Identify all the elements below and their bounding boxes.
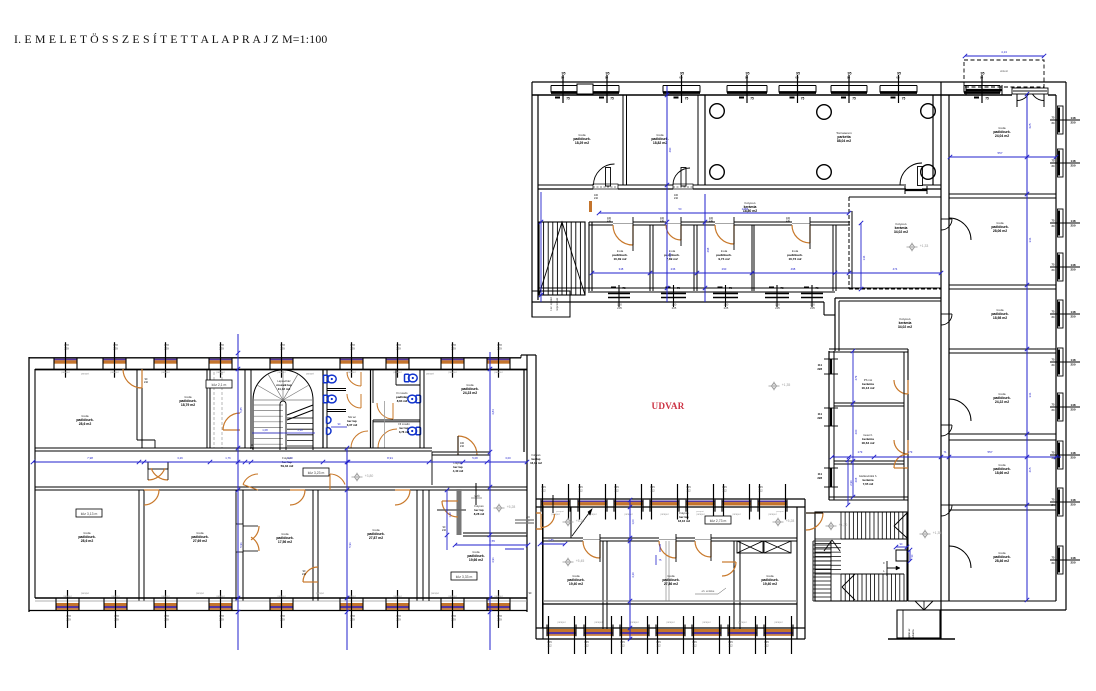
blue marks south M2 [655, 555, 657, 565]
main stair lower flight treads [840, 574, 842, 601]
south wing west wall upper [535, 355, 537, 513]
corridor west wall [588, 222, 590, 291]
east wing bottom wall [908, 600, 1056, 602]
svg-text:parapet: parapet [216, 371, 224, 374]
svg-text:148: 148 [1070, 358, 1075, 362]
svg-text:250: 250 [1070, 456, 1075, 460]
stair top-left border [539, 222, 585, 295]
north wing inner top wall [532, 94, 1012, 96]
sw bottom windows [56, 603, 79, 606]
svg-text:7,98: 7,98 [87, 456, 93, 460]
svg-text:27,86 m2: 27,86 m2 [664, 582, 678, 586]
blue main corridor dim sw [33, 461, 527, 463]
south east stair treads [813, 540, 831, 542]
svg-text:parapet: parapet [494, 595, 502, 598]
curved stair newel [280, 401, 286, 450]
svg-text:köz 2,73 m: köz 2,73 m [710, 519, 727, 523]
svg-text:5,91: 5,91 [348, 542, 352, 548]
door into B2 top [144, 490, 159, 505]
spine wall east line [948, 95, 950, 601]
north wing left exterior wall [531, 82, 533, 317]
east room 4 door [949, 399, 971, 421]
svg-text:210: 210 [709, 220, 714, 223]
stair lift blue dims [896, 546, 907, 548]
blue vert dim top wing x667 [666, 86, 668, 302]
svg-text:250: 250 [1070, 363, 1075, 367]
service rooms east wall [903, 352, 905, 500]
main stair upper flight treads [840, 512, 842, 539]
svg-text:parapet: parapet [776, 510, 784, 513]
svg-text:205: 205 [617, 306, 622, 310]
wc door arc lobby [351, 431, 368, 448]
svg-text:341: 341 [1028, 237, 1032, 242]
svg-text:7,65 m2: 7,65 m2 [863, 482, 874, 486]
svg-text:239: 239 [64, 347, 69, 351]
svg-text:290: 290 [722, 267, 727, 271]
hall right wall [932, 95, 934, 185]
south wing top outer wall [536, 498, 805, 500]
north corridor door sills [613, 223, 633, 225]
window left of entrance [966, 89, 1002, 91]
svg-text:279: 279 [854, 375, 858, 380]
wc vent pipe [384, 401, 386, 448]
south wing bottom outer wall [536, 638, 805, 640]
svg-text:5,91: 5,91 [239, 542, 243, 548]
svg-text:18,16 m2: 18,16 m2 [678, 519, 691, 523]
room T2 right wall [206, 369, 208, 448]
wc door arc ffi [378, 429, 397, 448]
window N3 [727, 85, 767, 87]
svg-text:3,76 m2: 3,76 m2 [399, 430, 410, 434]
svg-text:228: 228 [817, 367, 822, 371]
svg-text:28,46 m2: 28,46 m2 [995, 559, 1009, 563]
door leaf hall [918, 167, 923, 186]
level marks south wing [565, 519, 570, 526]
bottom row wall B2/B3 [235, 490, 237, 601]
entrance threshold [1012, 88, 1048, 94]
partition room B / hall [697, 95, 699, 185]
svg-text:210: 210 [302, 573, 307, 576]
sw wing bottom gray line [35, 600, 527, 602]
upper folyoso bottom dashed [849, 288, 941, 290]
svg-text:250: 250 [1070, 561, 1075, 565]
spine door half arc 4 [941, 505, 952, 516]
svg-text:05: 05 [745, 76, 749, 80]
svg-text:parapet: parapet [277, 595, 285, 598]
svg-text:05: 05 [847, 76, 851, 80]
svg-text:239: 239 [396, 347, 401, 351]
svg-text:parapet: parapet [696, 510, 704, 513]
svg-text:VÍZÓ: VÍZÓ [474, 495, 480, 498]
svg-text:4,40 m2: 4,40 m2 [453, 469, 464, 473]
svg-text:I.sz. épület: I.sz. épület [549, 297, 553, 311]
svg-text:05: 05 [795, 76, 799, 80]
svg-text:228: 228 [817, 476, 822, 480]
room T4 door arc [458, 436, 477, 455]
svg-text:UDVAR: UDVAR [652, 401, 685, 411]
svg-text:239: 239 [114, 618, 119, 622]
svg-text:210: 210 [442, 529, 447, 532]
svg-text:112: 112 [541, 489, 546, 493]
svg-text:Kijárat az: Kijárat az [907, 628, 911, 640]
svg-text:1,00: 1,00 [631, 519, 635, 525]
small room partition 2 [693, 225, 695, 291]
south rooms bottom wall [543, 600, 797, 602]
svg-text:112: 112 [722, 489, 727, 493]
service wing top wall [829, 348, 908, 350]
svg-text:24,23 m2: 24,23 m2 [463, 391, 477, 395]
svg-text:4,30: 4,30 [631, 572, 635, 578]
east wing room wall 5 [949, 504, 1056, 506]
vestibule east wall [244, 369, 246, 448]
svg-text:05: 05 [561, 76, 565, 80]
south corridor west door jambs [536, 512, 541, 514]
svg-text:210: 210 [786, 220, 791, 223]
svg-text:260: 260 [854, 429, 858, 434]
hall column circle 3 [921, 104, 936, 119]
svg-text:parapet: parapet [696, 513, 704, 516]
side stair arrow [824, 540, 832, 551]
svg-text:parapet: parapet [393, 595, 401, 598]
svg-text:4,13: 4,13 [1001, 50, 1007, 54]
svg-text:parapet: parapet [63, 595, 71, 598]
svg-text:179: 179 [908, 450, 913, 454]
service door 2 [894, 440, 908, 454]
door arc hall [900, 163, 922, 185]
hall column circle 4 [710, 165, 725, 180]
south windows of north wing [608, 293, 630, 295]
svg-text:parapet: parapet [306, 373, 314, 376]
door into B3 top [290, 490, 305, 505]
svg-text:parapet: parapet [660, 513, 668, 516]
koz box T2 [206, 380, 232, 388]
svg-text:205: 205 [775, 306, 780, 310]
blue horiz dim east room 557 [950, 156, 1056, 158]
small room east wall [832, 225, 834, 291]
svg-text:udvarra: udvarra [911, 629, 915, 638]
crate X box 2 [764, 541, 791, 553]
side stair treads [815, 538, 841, 540]
folyoso 4,40 walls [432, 451, 490, 453]
double door B2/B3 [236, 524, 243, 552]
corridor small orange jamb [589, 201, 592, 212]
gray sill in east wall [515, 519, 534, 521]
window N6 [880, 85, 917, 87]
service door 3 [894, 454, 908, 468]
svg-text:24,22 m2: 24,22 m2 [995, 400, 1009, 404]
curved stair treads [253, 404, 283, 406]
svg-text:3,55: 3,55 [489, 539, 495, 543]
service wing west window 1 [830, 359, 832, 374]
wc toilet right mid [416, 395, 421, 403]
partition room A/B [622, 95, 624, 185]
level mark courtyard right [771, 383, 776, 390]
level mark upper folyoso [909, 244, 914, 251]
level mark near stair [828, 523, 833, 530]
svg-text:parapet: parapet [316, 592, 324, 595]
entrance double door leaf [1016, 87, 1018, 107]
wc top-right cell wall [395, 370, 397, 386]
window N5 [831, 85, 867, 87]
stair top-left arrows [539, 222, 585, 295]
svg-text:498: 498 [791, 267, 796, 271]
svg-text:75: 75 [750, 97, 754, 101]
service partition 2 [834, 460, 904, 462]
svg-text:parapet: parapet [196, 592, 204, 595]
svg-text:1,48: 1,48 [448, 512, 452, 518]
blue horiz dim 557 mid [832, 456, 1061, 458]
curved stair right treads [287, 417, 313, 419]
blue vert dim sw x490 [489, 352, 491, 650]
svg-text:205: 205 [810, 306, 815, 310]
svg-text:köz 3,33 m: köz 3,33 m [456, 575, 473, 579]
door B3 lower arc [303, 567, 318, 582]
wc urinal 1 [328, 417, 332, 424]
door M2a [659, 541, 676, 558]
bottom row wall B3/B4 [312, 490, 314, 601]
south wing west wall inner line [542, 508, 544, 628]
sw wing bottom outer wall [29, 610, 527, 612]
level mark corridor [354, 474, 359, 481]
service wing west wall [828, 351, 830, 500]
svg-text:75: 75 [815, 286, 819, 290]
svg-text:112: 112 [764, 644, 769, 648]
svg-text:75: 75 [729, 286, 733, 290]
exit ground line [888, 638, 955, 640]
svg-text:parapet: parapet [448, 371, 456, 374]
svg-text:parapet: parapet [551, 513, 559, 516]
north corridor bottom wall [589, 221, 613, 223]
south wing top window band [541, 501, 570, 503]
blue vert stair dim x541 [540, 192, 542, 302]
svg-text:239: 239 [164, 347, 169, 351]
svg-text:parapet: parapet [431, 592, 439, 595]
svg-text:239: 239 [219, 618, 224, 622]
folyoso 8,28 gray wall [457, 489, 462, 535]
east wing outer east wall [1065, 82, 1067, 610]
svg-text:19,40 m2: 19,40 m2 [763, 582, 777, 586]
south wing west wall outer [535, 513, 537, 639]
blue vert dim top wing x705 [704, 194, 706, 302]
svg-text:210: 210 [460, 445, 465, 448]
svg-text:köz 2,1 m: köz 2,1 m [212, 383, 227, 387]
svg-text:239: 239 [350, 618, 355, 622]
blue vert dim south wing x630 [629, 500, 631, 640]
service wing bottom wall [829, 496, 908, 498]
svg-text:239: 239 [113, 347, 118, 351]
svg-text:148: 148 [1070, 498, 1075, 502]
window N7 [964, 85, 1000, 87]
room B5 walls [428, 490, 430, 601]
door M3 inner [722, 562, 736, 576]
svg-text:17,56 m2: 17,56 m2 [278, 540, 292, 544]
svg-text:parapet: parapet [768, 513, 776, 516]
svg-text:16,73 m2: 16,73 m2 [788, 257, 801, 261]
wc fi/ffi divider [373, 419, 420, 421]
hall column circle 5 [817, 165, 832, 180]
svg-text:239: 239 [497, 618, 502, 622]
svg-text:75: 75 [902, 97, 906, 101]
svg-text:250: 250 [1070, 503, 1075, 507]
stair lift box [896, 550, 907, 561]
svg-text:lépcsöház: lépcsöház [555, 297, 559, 310]
svg-text:239: 239 [451, 347, 456, 351]
svg-text:3,00: 3,00 [505, 456, 511, 460]
svg-text:05: 05 [896, 76, 900, 80]
koz box B5 [451, 572, 477, 580]
stairwell box [250, 369, 252, 448]
svg-text:5,08: 5,08 [472, 456, 478, 460]
svg-text:parapet: parapet [110, 371, 118, 374]
spine door half arc 3 [941, 425, 952, 436]
svg-text:parapet: parapet [216, 595, 224, 598]
svg-text:05: 05 [605, 76, 609, 80]
south wing west wall inner [542, 501, 544, 639]
door leaf room B [681, 168, 686, 187]
east room 2 door [949, 218, 971, 240]
sw top windows [54, 359, 77, 361]
svg-text:köz 3,13 m: köz 3,13 m [81, 512, 98, 516]
svg-text:112: 112 [547, 644, 552, 648]
bottom wall band inner line [588, 291, 835, 293]
south corridor west door [541, 514, 555, 528]
svg-text:250: 250 [1070, 408, 1075, 412]
svg-text:parapet: parapet [61, 371, 69, 374]
svg-text:474: 474 [893, 267, 898, 271]
window N1 [551, 85, 619, 87]
east room 6 door [949, 546, 971, 568]
bottom row wall B4/B5 [416, 490, 418, 601]
svg-text:34,02 m2: 34,02 m2 [898, 325, 912, 329]
svg-text:parapet: parapet [277, 371, 285, 374]
south wing partition M2/M3 [733, 541, 735, 629]
svg-text:8,28 m2: 8,28 m2 [474, 512, 485, 516]
blue horiz dim B5 355 [455, 544, 528, 546]
room T2 door arc [123, 369, 142, 388]
corridor double door symbol [148, 462, 168, 469]
svg-text:112: 112 [692, 644, 697, 648]
svg-text:148: 148 [1070, 219, 1075, 223]
svg-text:239: 239 [219, 347, 224, 351]
curved stair outline [253, 370, 313, 450]
svg-text:eh. emléke: eh. emléke [702, 589, 715, 593]
svg-text:4,91: 4,91 [491, 557, 495, 563]
svg-text:148: 148 [1070, 403, 1075, 407]
east wing room wall 3 [949, 348, 1056, 350]
small room partition 1 [649, 225, 651, 291]
sw wing top outer wall [29, 357, 521, 359]
wc door arc stall 2 [347, 394, 361, 408]
water meter pipe [475, 483, 477, 505]
svg-text:228: 228 [817, 416, 822, 420]
upper folyoso top wall [849, 196, 941, 198]
bottom row wall B1/B2 [138, 490, 140, 601]
wc toilet right bottom [416, 427, 421, 435]
dashed canopy rect top right [964, 60, 1044, 87]
svg-text:112: 112 [758, 489, 763, 493]
svg-text:75: 75 [985, 97, 989, 101]
svg-text:27,69 m2: 27,69 m2 [193, 539, 207, 543]
wc stall wall 1 [327, 388, 346, 390]
svg-text:I. E M E L E T Ö S S Z E S Í: I. E M E L E T Ö S S Z E S Í T E T T A L… [14, 32, 328, 46]
svg-text:557: 557 [987, 450, 992, 454]
sw wing top inner wall [35, 369, 527, 371]
vestibule dashed lines [213, 372, 215, 448]
door M1 [583, 541, 600, 558]
wc mid wall [370, 370, 372, 449]
svg-text:112: 112 [656, 644, 661, 648]
hall column circle 2 [817, 105, 832, 120]
svg-text:298: 298 [668, 252, 672, 257]
svg-text:75: 75 [622, 286, 626, 290]
svg-text:112: 112 [686, 489, 691, 493]
svg-text:parapet: parapet [81, 373, 89, 376]
svg-text:19,66 m2: 19,66 m2 [469, 558, 483, 562]
svg-text:05: 05 [980, 76, 984, 80]
room row1 bottom wall [538, 184, 593, 186]
small room partition 3 [751, 225, 753, 291]
koz box south corridor [705, 516, 731, 524]
svg-text:parapet: parapet [494, 371, 502, 374]
room T2 inner step [137, 439, 155, 441]
svg-text:3,73: 3,73 [287, 456, 293, 460]
stair direction arrow [887, 567, 900, 569]
blue horiz corridor north 1356 [599, 212, 849, 214]
south wing top wall inner [536, 506, 805, 508]
blue vert dim x447 [446, 490, 448, 550]
svg-text:+1,35: +1,35 [782, 383, 791, 387]
svg-text:18,64 m2: 18,64 m2 [861, 441, 874, 445]
wc door arc stall 1 [347, 372, 361, 386]
door sill room A [593, 186, 618, 188]
south bottom windows [547, 629, 576, 632]
svg-text:11,12 m2: 11,12 m2 [278, 387, 291, 391]
small room door arc 4 [792, 225, 810, 243]
svg-text:3,29: 3,29 [177, 456, 183, 460]
svg-text:2,96: 2,96 [849, 480, 853, 486]
east wing room wall 1 [949, 193, 1056, 195]
svg-text:59,34 m2: 59,34 m2 [281, 464, 294, 468]
hall column circle 6 [921, 165, 936, 180]
door arc room B [673, 168, 690, 185]
svg-text:parapet: parapet [557, 621, 565, 624]
vestibule door arc [223, 413, 240, 430]
wc toilet 1 [324, 375, 329, 383]
svg-text:parapet: parapet [630, 621, 638, 624]
stair dim line blue [252, 432, 315, 434]
svg-text:112: 112 [584, 644, 589, 648]
north wing bottom interior wall [538, 287, 941, 289]
svg-text:239: 239 [497, 347, 502, 351]
svg-text:75: 75 [566, 97, 570, 101]
svg-text:05: 05 [679, 76, 683, 80]
svg-text:75: 75 [801, 97, 805, 101]
svg-text:279: 279 [858, 450, 863, 454]
spine door half arc 2 [941, 314, 952, 325]
main stair lower flight chevron [842, 574, 855, 587]
svg-text:1,85: 1,85 [548, 538, 554, 542]
wc urinal 2 [328, 428, 332, 435]
svg-text:+1,35: +1,35 [933, 531, 942, 535]
sw wing top step [520, 355, 522, 358]
lower folyoso room walls [834, 298, 836, 351]
service door 1 [894, 380, 908, 394]
svg-text:250: 250 [1070, 224, 1075, 228]
svg-text:34,02 m2: 34,02 m2 [894, 230, 908, 234]
svg-text:18,29 m2: 18,29 m2 [575, 141, 589, 145]
blue vert dim x861 [860, 223, 862, 289]
svg-text:210: 210 [594, 197, 599, 200]
